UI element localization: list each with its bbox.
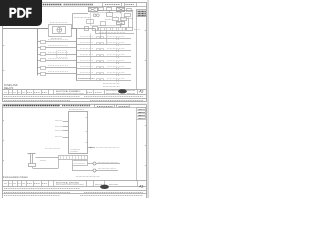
wire drop 2 — [109, 11, 111, 13]
junction box outline — [91, 13, 122, 26]
wire drop 8 — [132, 11, 134, 28]
branch wire W4 — [38, 60, 77, 62]
page 2 title block cells text — [4, 183, 47, 185]
relay K2 contact — [121, 18, 127, 21]
title block small cells text — [4, 92, 47, 94]
legend column border page 2 — [136, 120, 138, 182]
distribution label D8 — [80, 78, 125, 80]
fuse F4 — [41, 59, 46, 62]
ignition switch outer box — [49, 25, 72, 37]
company logo — [106, 89, 135, 93]
cluster label text — [74, 18, 133, 20]
ECU pin wire P2 — [63, 126, 69, 128]
distribution wire D6 — [76, 67, 131, 71]
wire to relay R1 — [73, 14, 89, 29]
distribution label D4 — [80, 54, 125, 56]
connector box J2 — [73, 161, 88, 166]
sender label — [40, 160, 46, 162]
page 1 header cell box 1 — [103, 3, 122, 7]
row 8 label cluster — [78, 78, 95, 80]
distribution wire D1 — [76, 37, 131, 41]
ECU bottom pin label — [45, 148, 60, 150]
svg-text:A3: A3 — [139, 89, 143, 93]
fuse F3 — [41, 53, 46, 56]
page 1 header rule — [3, 6, 147, 8]
page 2 company logo — [95, 185, 118, 190]
module box M1 — [87, 20, 94, 24]
branch label W5 — [48, 65, 68, 67]
relay K1 — [107, 13, 113, 17]
branch label W1 — [48, 39, 68, 41]
fuse F6 — [41, 73, 46, 76]
page 1 title block grid — [3, 90, 147, 99]
ECU pin label P1 — [55, 120, 62, 122]
ECU top label — [69, 109, 84, 111]
wire drop 3 — [120, 12, 122, 14]
wire drop 7 — [128, 18, 130, 28]
branch label W2 — [48, 45, 68, 47]
page 2 left border — [2, 105, 4, 199]
ECU pin label P3 — [55, 130, 62, 132]
branch wire W3 — [38, 54, 77, 56]
output wire WB1 — [87, 162, 120, 165]
distribution label D1 — [80, 36, 125, 38]
fusible link FL1 — [127, 9, 132, 12]
wire continuation labels — [76, 176, 100, 178]
fuse F10 — [125, 14, 131, 17]
relay K3 — [116, 22, 125, 25]
sheet size A3 page 1 — [139, 89, 143, 93]
svg-text:A3: A3 — [139, 184, 143, 188]
page 2 top border — [3, 104, 147, 106]
distribution wire D5 — [76, 61, 131, 65]
svg-text:ELECTRICAL SCHEMATIC: ELECTRICAL SCHEMATIC — [56, 90, 81, 93]
title block cell CHKD — [87, 92, 102, 94]
section label Instrumentation Cluster — [3, 176, 28, 179]
page 2 sheet background — [0, 104, 148, 198]
output label WB1 — [98, 162, 118, 164]
first distribution stub — [96, 29, 135, 34]
connector block X2 — [107, 8, 112, 11]
ignition switch output wire — [71, 28, 76, 30]
page 2 drawing title — [56, 181, 84, 184]
distribution label D7 — [80, 72, 125, 74]
ECU pin label P2 — [55, 126, 62, 128]
small box M2 — [101, 22, 106, 26]
fuse F1 — [41, 41, 46, 44]
relay K2 coil — [113, 18, 119, 21]
page 2 header cell box 1 — [95, 105, 115, 108]
title block drawing title — [56, 90, 84, 93]
connector on feed B — [93, 27, 98, 31]
ECU internal label — [71, 150, 81, 152]
svg-text:ELECTRICAL (GROUND): ELECTRICAL (GROUND) — [56, 181, 79, 184]
branch wire W5 — [38, 67, 77, 69]
distribution label D3 — [80, 48, 125, 50]
branch wire W1 — [38, 41, 77, 43]
relay R2 with cross — [117, 8, 126, 12]
cluster drop to row 2 — [106, 31, 108, 45]
sender wire b — [33, 160, 59, 169]
feed wire continuation — [71, 28, 96, 30]
branch wire W2 — [38, 47, 77, 49]
wire drop 4 — [116, 17, 118, 18]
output wire WB2 — [72, 166, 118, 173]
fuse row strip — [99, 28, 133, 31]
page gap — [0, 103, 148, 105]
left bus wire — [37, 29, 39, 76]
fuse F2 — [41, 47, 46, 50]
battery feed wire — [3, 28, 48, 30]
distribution label D6 — [80, 66, 125, 68]
fuse F5 — [41, 67, 46, 70]
title block row 3 text — [4, 100, 143, 102]
distribution wire D2 — [76, 43, 131, 47]
ignition switch rotor — [57, 27, 62, 32]
right bus wire — [76, 29, 78, 81]
relay R1 with cross — [88, 8, 98, 12]
page 1 header cell box 2 — [125, 3, 137, 7]
branch label W6 — [48, 71, 68, 73]
branch label W4 — [48, 58, 68, 60]
mid bus wire — [90, 34, 92, 81]
section label FUSES AND RELAYS — [4, 84, 18, 90]
ECU right pin ticks — [86, 118, 88, 143]
ignition coil symbol — [93, 14, 99, 17]
page 1 header title text — [39, 4, 94, 6]
page 2 header rule — [3, 107, 147, 109]
legend table header — [137, 10, 147, 17]
distribution wire D3 — [76, 49, 131, 53]
fuel sender S2 — [28, 154, 36, 167]
output label WB2 — [98, 168, 116, 170]
connector block X1 — [99, 8, 104, 11]
sheet size A3 page 2 — [139, 184, 143, 188]
connector on feed A — [85, 27, 89, 31]
sender wire a — [36, 157, 59, 159]
connector bar J1 — [59, 156, 88, 160]
page 2 header text — [4, 105, 91, 107]
fuse row labels — [99, 30, 140, 33]
revision table — [137, 108, 147, 120]
page 2 header cell box 2 — [117, 105, 130, 108]
legend column left border — [136, 10, 138, 90]
svg-text:Instrumentation Cluster: Instrumentation Cluster — [3, 176, 28, 179]
row end labels — [103, 84, 120, 87]
ECU output label — [96, 147, 119, 149]
branch wire W6 — [38, 73, 77, 75]
ECU pin label P4 — [55, 136, 62, 138]
ECU module U1 — [69, 112, 88, 154]
page 1 drawing frame — [3, 3, 147, 102]
ignition switch label — [51, 38, 62, 40]
ECU output wire — [87, 147, 95, 148]
distribution label D5 — [80, 60, 125, 62]
right page-edge gray strip — [147, 0, 149, 198]
cluster drop to row 1 — [100, 31, 102, 39]
branch label W3 — [48, 52, 68, 54]
main feed wire — [97, 10, 133, 12]
ECU pin wire P4 — [63, 137, 69, 139]
page 1 border ticks — [3, 21, 147, 71]
ignition box area label — [50, 22, 68, 24]
distribution wire D7 — [76, 73, 131, 77]
title block row 2 text — [4, 96, 143, 98]
page 2 border ticks — [3, 121, 147, 166]
page 1 sheet background — [0, 0, 148, 103]
page 2 title block grid — [3, 181, 147, 194]
option box dashed — [57, 51, 67, 58]
ECU pin wire P3 — [63, 130, 69, 132]
distribution label D2 — [80, 42, 125, 44]
page 2 title rows text — [4, 189, 143, 196]
distribution wire D4 — [76, 55, 131, 59]
wire drop 6 — [120, 25, 122, 28]
ECU pin wire P1 — [63, 121, 69, 123]
PDF badge — [0, 0, 42, 26]
page 2 right border — [146, 105, 148, 199]
ignition switch inner box — [53, 27, 66, 34]
distribution wire D8 — [76, 79, 131, 83]
wire drop 5 — [124, 17, 126, 18]
